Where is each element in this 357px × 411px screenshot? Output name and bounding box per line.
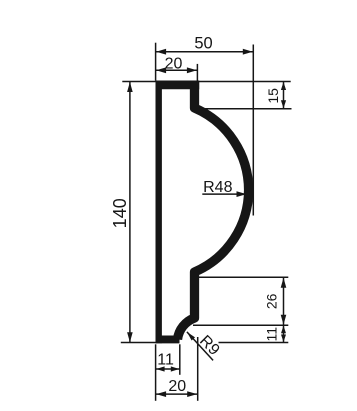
moulding profile right contour (leg, R48 arc, leg, R9 cove) bbox=[178, 81, 249, 340]
dimension 140 top arrow bbox=[127, 82, 133, 92]
svg-text:20: 20 bbox=[165, 55, 183, 72]
dimension 11 right top arrow bbox=[281, 326, 286, 334]
extension line left bottom (shared by 11 and 20 bottom) bbox=[155, 344, 157, 401]
svg-text:26: 26 bbox=[264, 293, 280, 309]
dimension 26 bottom arrow bbox=[281, 315, 287, 325]
leader R48 line bbox=[202, 193, 244, 195]
leader R9 arrow bbox=[187, 332, 195, 341]
dimension 11 right bottom arrow bbox=[281, 335, 286, 343]
extension line right of 20 bottom bbox=[197, 337, 199, 401]
svg-text:50: 50 bbox=[194, 34, 212, 52]
dimension 26 top arrow bbox=[281, 278, 287, 288]
dimension 50 right arrow bbox=[243, 49, 253, 55]
dimension 140 line bbox=[129, 82, 131, 342]
svg-text:140: 140 bbox=[110, 198, 130, 228]
extension line middle (for 26 and 11) bbox=[193, 324, 288, 326]
moulding profile top face bbox=[156, 81, 200, 90]
svg-text:11: 11 bbox=[157, 351, 174, 368]
svg-text:R9: R9 bbox=[196, 332, 223, 359]
dimension 15 bottom arrow bbox=[281, 100, 286, 108]
extension line bottom right (for 11 right) bbox=[219, 342, 289, 344]
svg-text:15: 15 bbox=[265, 88, 281, 104]
dimension 11 bottom right arrow bbox=[171, 366, 180, 371]
svg-text:R48: R48 bbox=[203, 179, 232, 196]
leader R48 arrow bbox=[237, 191, 247, 197]
extension line left (shared by 50 and 20 top) bbox=[155, 43, 157, 81]
dimension 15 top arrow bbox=[281, 82, 286, 90]
dimension 20 top right arrow bbox=[187, 67, 197, 73]
svg-text:20: 20 bbox=[168, 378, 186, 395]
extension line top left (for 140) bbox=[122, 81, 156, 83]
extension line right of 50 bbox=[252, 45, 254, 216]
dimension 15 line bbox=[283, 82, 285, 109]
dimension 20 bottom right arrow bbox=[187, 391, 197, 397]
leader R9 line bbox=[187, 332, 213, 361]
extension line bottom (for 15) bbox=[197, 108, 292, 110]
svg-text:11: 11 bbox=[264, 327, 280, 342]
dimension 50 line bbox=[156, 51, 254, 53]
dimension 20 bottom left arrow bbox=[156, 391, 166, 397]
dimension 20 bottom line bbox=[156, 393, 198, 395]
dimension 140 bottom arrow bbox=[127, 332, 133, 342]
extension line bottom left (for 140) bbox=[121, 342, 156, 344]
dimension 11 right line bbox=[283, 325, 285, 342]
moulding profile bottom face bbox=[156, 336, 180, 344]
moulding profile left wall bbox=[155, 81, 161, 344]
extension line top right (for 15) bbox=[197, 81, 291, 83]
extension line top (for 26) bbox=[197, 276, 288, 278]
dimension 20 top left arrow bbox=[156, 67, 166, 73]
dimension 11 bottom left arrow bbox=[156, 366, 165, 371]
extension line right of 11 bottom bbox=[179, 344, 181, 375]
extension line right of 20 top bbox=[196, 64, 198, 81]
dimension 20 top line bbox=[156, 69, 198, 71]
dimension 26 line bbox=[283, 277, 285, 325]
dimension 50 left arrow bbox=[156, 49, 166, 55]
moulding profile interior fill bbox=[159, 85, 249, 340]
dimension 11 bottom line bbox=[156, 368, 180, 370]
